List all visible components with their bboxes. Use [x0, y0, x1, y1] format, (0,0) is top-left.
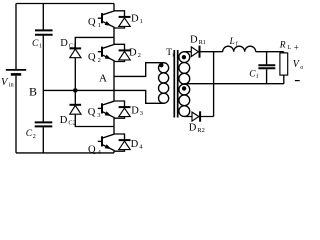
svg-text:R1: R1: [199, 39, 206, 46]
label DC1: [60, 38, 76, 50]
svg-text:A: A: [99, 72, 107, 84]
svg-text:o: o: [300, 64, 303, 71]
transformer Tr secondary winding: [179, 52, 190, 117]
svg-text:L: L: [229, 37, 235, 47]
svg-text:1: 1: [39, 44, 42, 50]
wire capacitor bus upper: [42, 4, 44, 31]
wire capacitor bus lower: [42, 127, 44, 153]
svg-text:4: 4: [139, 143, 143, 150]
wire secondary bottom to DR2: [184, 116, 213, 118]
wire Cf tap lower: [266, 69, 268, 84]
transistor Q2: [98, 45, 114, 62]
capacitor C1: [35, 30, 53, 34]
svg-text:in: in: [9, 81, 15, 88]
svg-text:D: D: [129, 47, 137, 58]
wire output bottom rail / center tap: [184, 83, 283, 85]
transformer primary phase dot: [159, 63, 163, 67]
svg-text:D: D: [60, 115, 68, 126]
label C2: [26, 129, 36, 140]
wire leg Q2-Q3 node A: [113, 62, 115, 102]
wire node A to transformer primary top: [114, 63, 164, 77]
junction dot clamp midpoint: [73, 88, 78, 93]
resistor RL: [280, 52, 288, 84]
svg-text:r: r: [172, 53, 174, 59]
svg-text:D: D: [189, 123, 197, 134]
label C1: [32, 39, 42, 50]
wire node B to transformer primary bottom: [43, 90, 163, 103]
antiparallel diode D2: [114, 44, 131, 61]
svg-text:Q: Q: [88, 145, 96, 156]
svg-text:1: 1: [140, 18, 143, 25]
label Q2: [88, 52, 101, 64]
rectifier diode DR2: [192, 111, 200, 121]
wire rectifier cathode join vertical: [213, 52, 215, 117]
svg-text:Q: Q: [88, 52, 96, 63]
svg-text:3: 3: [97, 112, 100, 119]
svg-text:D: D: [60, 38, 68, 49]
svg-text:C: C: [26, 129, 33, 139]
svg-text:D: D: [131, 139, 139, 150]
svg-text:C2: C2: [68, 119, 75, 126]
svg-text:V: V: [1, 77, 9, 88]
label Q4: [88, 145, 102, 157]
wire top rail: [16, 3, 114, 5]
svg-text:C: C: [32, 39, 39, 49]
antiparallel diode D4: [114, 134, 131, 151]
label Q1: [88, 17, 101, 29]
svg-text:D: D: [131, 13, 139, 24]
wire leg top: [113, 4, 115, 11]
svg-text:R2: R2: [197, 127, 204, 134]
label Q3: [88, 107, 101, 119]
svg-text:R: R: [279, 41, 286, 51]
svg-text:2: 2: [33, 134, 36, 140]
label Vin: [1, 77, 15, 89]
label Lf: [229, 37, 238, 48]
transformer secondary phase dot top: [182, 55, 186, 59]
inductor Lf: [223, 46, 256, 51]
svg-text:C1: C1: [69, 42, 76, 49]
antiparallel diode D3: [114, 101, 131, 118]
svg-text:3: 3: [140, 110, 143, 117]
label DR2: [189, 123, 205, 135]
capacitor Cf: [258, 65, 275, 68]
wire Lf to RL: [256, 51, 284, 53]
label D4: [131, 139, 144, 151]
wire leg bottom: [113, 151, 115, 153]
svg-text:L: L: [287, 45, 291, 51]
svg-text:T: T: [166, 48, 172, 58]
svg-text:1: 1: [98, 22, 101, 29]
label DR1: [190, 35, 206, 47]
label RL: [279, 41, 292, 52]
wire left bus lower: [15, 76, 17, 153]
transformer core: [174, 50, 177, 118]
svg-text:f: f: [236, 41, 238, 48]
wire leg Q3-Q4: [113, 118, 115, 134]
transistor Q3: [98, 101, 114, 118]
label D1: [131, 13, 143, 25]
label Tr: [166, 48, 174, 59]
transformer Tr primary winding: [159, 63, 169, 104]
svg-text:2: 2: [138, 52, 141, 59]
output minus mark: [295, 80, 300, 82]
antiparallel diode D1: [114, 11, 131, 28]
svg-text:B: B: [29, 84, 37, 98]
svg-text:D: D: [131, 106, 139, 117]
wire capacitor bus middle: [42, 36, 44, 122]
wire left bus upper: [15, 4, 17, 70]
label Cf: [249, 70, 258, 81]
capacitor C2: [35, 122, 53, 126]
svg-text:C: C: [249, 70, 256, 80]
svg-text:D: D: [190, 35, 198, 46]
wire secondary top to Lf: [184, 51, 222, 53]
transistor Q4: [98, 134, 114, 151]
svg-text:f: f: [256, 73, 258, 80]
voltage source Vin battery: [6, 70, 26, 75]
wire Cf tap upper: [266, 52, 268, 65]
clamp diode DC2: [70, 90, 115, 126]
svg-text:Q: Q: [88, 17, 96, 28]
transistor Q1: [98, 11, 114, 28]
svg-text:2: 2: [98, 57, 101, 64]
label DC2: [60, 115, 76, 127]
wire leg Q1-Q2: [113, 28, 115, 44]
svg-text:Q: Q: [88, 107, 96, 118]
rectifier diode DR1: [191, 46, 199, 58]
wire bottom rail: [16, 152, 114, 154]
label Vo: [293, 59, 304, 71]
svg-text:+: +: [294, 43, 299, 53]
label D3: [131, 106, 143, 118]
clamp diode DC1: [70, 37, 115, 88]
transformer secondary phase dot middle: [182, 86, 186, 90]
label D2: [129, 47, 141, 59]
